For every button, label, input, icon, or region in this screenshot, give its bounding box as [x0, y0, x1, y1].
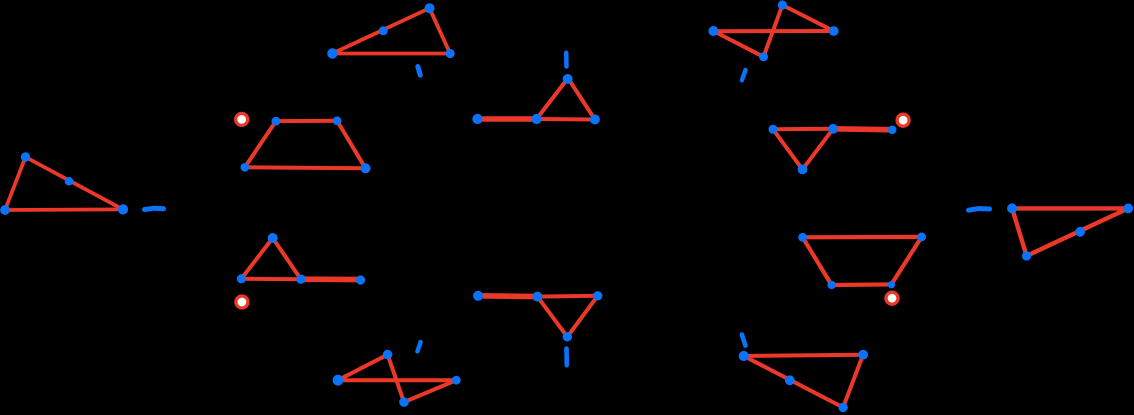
node triangle6 bottom vertex	[798, 165, 808, 175]
node bowtie9 left vertex	[333, 375, 344, 386]
node triangle12 hypotenuse midpoint	[1075, 227, 1085, 237]
node triangle4 apex	[563, 74, 573, 84]
wire triangle3 edge top-right	[430, 8, 451, 53]
node segment6 right endpoint	[888, 126, 897, 135]
shape 7: triangle plus segment left-middle	[241, 238, 301, 279]
node triangle12 bottom vertex	[1022, 251, 1031, 260]
node triangle1 bottom-left vertex	[0, 205, 10, 215]
wire trapezoid2 right edge	[337, 121, 365, 169]
tick dash8 below triangle8	[564, 349, 569, 366]
wire triangle4 bottom edge	[537, 117, 595, 122]
tick dash12 horizontal left of triangle12	[969, 209, 990, 211]
node triangle1 top vertex	[21, 152, 30, 161]
wire bowtie5 edge top-right	[782, 5, 833, 31]
tick dash1 horizontal right of triangle1	[145, 208, 164, 209]
wire triangle7 left edge	[241, 238, 272, 279]
node triangle6 left vertex	[769, 125, 778, 134]
shape 10: trapezoid right-middle	[803, 237, 922, 285]
node triangle3 right vertex	[446, 49, 455, 58]
wire segment8 thick bar	[478, 293, 537, 299]
wire triangle8 right edge	[567, 296, 597, 337]
node triangle12 top-left vertex	[1007, 203, 1017, 213]
node trapezoid10 bottom-right vertex	[888, 281, 895, 288]
wire triangle4 left edge	[537, 78, 568, 119]
node triangle7 apex	[268, 233, 278, 243]
node triangle1 bottom-right vertex	[118, 204, 128, 214]
node trapezoid2 top-left vertex	[272, 117, 281, 126]
tick dash11 above triangle11 left vertex	[742, 335, 746, 346]
node triangle8 right vertex	[593, 291, 602, 300]
shape 11: triangle bottom-right	[744, 355, 863, 408]
wire bowtie9 edge left-top	[338, 355, 388, 381]
wire triangle4 right edge	[568, 78, 595, 119]
tick dash4 above triangle4 apex	[564, 53, 569, 67]
wire segment7 thick bar	[301, 276, 361, 282]
node bowtie9 right vertex	[452, 376, 461, 385]
node segment7 right endpoint	[356, 275, 365, 284]
node triangle7 junction vertex	[296, 275, 305, 284]
node trapezoid10 top-right vertex	[917, 233, 926, 242]
node triangle1 hypotenuse midpoint	[65, 177, 74, 186]
wire triangle6 right edge	[803, 129, 834, 170]
wire trapezoid2 top edge	[276, 119, 337, 123]
wire bowtie9 edge top-bottom	[388, 355, 404, 403]
wire triangle7 bottom edge	[241, 277, 301, 281]
shape 9: bowtie bottom-middle	[338, 355, 456, 403]
node bowtie5 right vertex	[829, 26, 839, 36]
node bowtie5 bottom vertex	[759, 52, 768, 61]
wire triangle1 edge left	[5, 157, 26, 210]
marker ring10 circled dot below bottom-right	[886, 292, 898, 304]
node triangle12 top-right vertex	[1123, 204, 1133, 214]
wire triangle11 right edge	[843, 355, 863, 408]
wire bowtie9 long edge left-right	[338, 378, 456, 382]
wire trapezoid10 left edge	[803, 237, 832, 285]
node trapezoid10 top-left vertex	[798, 233, 807, 242]
wire triangle11 hypotenuse	[744, 356, 843, 407]
node bowtie9 bottom vertex	[399, 397, 409, 407]
node triangle11 bottom vertex	[838, 403, 847, 412]
shape 5: bowtie top-right	[713, 5, 833, 57]
node triangle3 midpoint on slanted edge	[379, 26, 388, 35]
node triangle8 bottom vertex	[563, 332, 572, 341]
node bowtie5 top vertex	[778, 0, 787, 9]
node triangle4 right vertex	[590, 115, 600, 125]
wire triangle6 top edge	[773, 127, 833, 132]
wire triangle3 edge left-top	[332, 8, 429, 53]
node bowtie9 top vertex	[383, 350, 393, 360]
node trapezoid10 bottom-left vertex	[827, 281, 835, 289]
node triangle6 junction vertex	[828, 124, 838, 134]
node segment4 junction vertex	[532, 114, 542, 124]
marker ring2 circled dot left of trapezoid	[236, 113, 248, 125]
shape 3: triangle top-middle	[332, 8, 450, 53]
wire triangle12 hypotenuse	[1027, 208, 1129, 256]
node trapezoid2 bottom-left vertex	[241, 163, 250, 172]
tick dash9 above-right of bowtie9	[417, 342, 420, 351]
node trapezoid2 top-right vertex	[333, 116, 342, 125]
shape 12: triangle far-right	[1012, 208, 1128, 256]
node triangle3 top vertex	[425, 3, 435, 13]
wire trapezoid2 bottom edge	[245, 167, 366, 168]
wire triangle12 top edge	[1012, 206, 1128, 210]
node triangle11 right vertex	[858, 350, 868, 360]
shape 1: triangle bottom-left	[5, 157, 123, 210]
wire bowtie5 long edge left-right	[713, 29, 833, 33]
wire bowtie9 edge bottom-right	[404, 380, 456, 402]
wire triangle11 top edge	[744, 355, 863, 356]
wire triangle8 left edge	[537, 297, 567, 337]
wire triangle1 edge bottom	[5, 207, 123, 211]
node triangle3 left vertex	[327, 48, 337, 58]
tick dash5 below bowtie5	[742, 70, 746, 80]
wire trapezoid2 left edge	[245, 121, 276, 167]
node segment4 left endpoint	[472, 114, 482, 124]
wire bowtie5 edge left-bottom	[713, 31, 763, 57]
node trapezoid2 bottom-right vertex	[361, 163, 371, 173]
wire triangle1 hypotenuse	[26, 157, 124, 209]
wire trapezoid10 top edge	[803, 235, 922, 240]
marker ring6 circled dot at segment6 end	[897, 114, 909, 126]
wire triangle6 left edge	[773, 129, 803, 169]
wire segment6 thick bar	[833, 126, 892, 132]
wire triangle8 top edge	[537, 294, 597, 299]
wire triangle7 right edge	[273, 238, 301, 279]
shape 6: triangle plus segment right	[773, 129, 833, 170]
node triangle11 hypotenuse midpoint	[785, 375, 795, 385]
tick dash3 below triangle3	[418, 67, 421, 76]
wire bowtie5 edge bottom-top	[764, 5, 783, 57]
wire segment4 thick bar	[477, 116, 537, 122]
wire triangle3 edge bottom	[332, 52, 450, 56]
node segment8 left endpoint	[473, 291, 483, 301]
wire trapezoid10 right edge	[891, 237, 921, 285]
marker ring7 circled dot below-left	[236, 296, 248, 308]
wire triangle12 left edge	[1012, 208, 1027, 256]
node triangle7 left vertex	[237, 274, 246, 283]
shape 2: trapezoid top-left	[245, 121, 366, 169]
node segment8 junction vertex	[532, 292, 542, 302]
node triangle11 left vertex	[739, 351, 749, 361]
node bowtie5 left vertex	[708, 26, 718, 36]
wire trapezoid10 bottom edge	[832, 282, 892, 287]
